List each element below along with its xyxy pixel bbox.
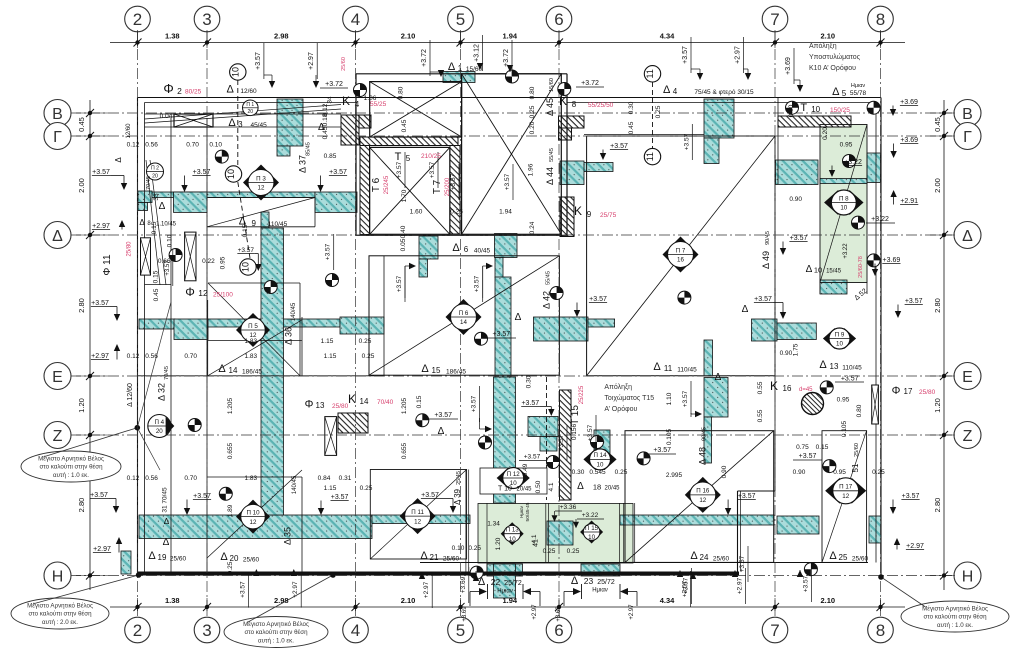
svg-text:T 10: T 10	[498, 486, 512, 493]
svg-text:25/100: 25/100	[213, 292, 233, 299]
svg-text:0.45: 0.45	[628, 121, 635, 134]
svg-text:12: 12	[842, 493, 849, 500]
svg-text:31 70/45: 31 70/45	[161, 487, 168, 513]
svg-text:Δ: Δ	[742, 304, 749, 315]
svg-text:Δ 12/60: Δ 12/60	[127, 383, 134, 407]
svg-text:3: 3	[202, 621, 211, 640]
grid line Gamma horizontal	[70, 135, 952, 137]
svg-text:+3.57: +3.57	[905, 298, 923, 305]
crossed lintel box	[174, 114, 213, 127]
svg-text:0.10: 0.10	[167, 234, 174, 247]
svg-text:1.38: 1.38	[165, 32, 180, 41]
svg-text:34: 34	[327, 96, 334, 104]
svg-text:10: 10	[811, 105, 820, 114]
svg-text:+2.97: +2.97	[308, 52, 315, 70]
svg-text:+3.57: +3.57	[841, 375, 859, 382]
svg-text:85/45: 85/45	[306, 142, 312, 156]
svg-text:Δ 35: Δ 35	[282, 527, 292, 545]
grid circle Ζ left	[44, 422, 71, 449]
benchmark at 332,280	[326, 274, 339, 287]
svg-text:+2.97: +2.97	[737, 577, 744, 594]
grid circle Η left	[44, 562, 71, 589]
svg-text:3: 3	[238, 120, 243, 129]
svg-text:Δ: Δ	[421, 363, 429, 375]
strip vertical x494 bottom stub	[494, 564, 516, 598]
grid line Delta horizontal	[70, 234, 952, 236]
svg-text:+3.69: +3.69	[785, 57, 792, 75]
svg-text:στο καλούπι στην θέση: στο καλούπι στην θέση	[923, 614, 987, 621]
shaft П8 outline + diagonal	[820, 125, 867, 283]
svg-text:0.40: 0.40	[400, 225, 407, 238]
svg-text:12: 12	[198, 288, 208, 298]
beam Δ1 top	[443, 72, 475, 83]
beam piece right x869	[869, 516, 881, 543]
svg-text:Μέγιστο Αρνητικό Βέλος: Μέγιστο Αρνητικό Βέλος	[38, 455, 104, 462]
svg-text:+2.97: +2.97	[629, 604, 635, 620]
svg-text:Δ: Δ	[139, 218, 145, 227]
svg-text:+3.57: +3.57	[504, 173, 511, 190]
svg-text:1.06: 1.06	[364, 95, 377, 102]
benchmark at 829.4,466.1	[823, 460, 836, 473]
svg-text:+3.57: +3.57	[492, 331, 510, 338]
svg-text:Δ: Δ	[962, 228, 973, 245]
beam deep y516 x777	[777, 516, 819, 534]
room П17 outline	[822, 431, 867, 563]
svg-text:Δ: Δ	[832, 86, 840, 98]
svg-text:0.545: 0.545	[589, 469, 606, 476]
svg-text:Ημιαν: Ημιαν	[851, 83, 866, 89]
svg-text:Π 16: Π 16	[696, 488, 710, 495]
post Φ11 left X-box	[141, 238, 151, 275]
svg-text:2.00: 2.00	[77, 178, 86, 193]
svg-text:T: T	[395, 151, 402, 163]
room П10 walls	[207, 476, 302, 478]
svg-text:23: 23	[584, 576, 594, 586]
green zone shaft K10/П8	[820, 125, 867, 283]
svg-text:1.70: 1.70	[401, 189, 408, 202]
svg-text:+2.97: +2.97	[92, 223, 110, 230]
svg-text:Δ: Δ	[663, 84, 671, 96]
svg-text:+3.69: +3.69	[460, 576, 467, 593]
svg-text:0.90: 0.90	[789, 196, 802, 203]
wall strip x261 thin top	[261, 212, 269, 228]
svg-text:0.90: 0.90	[721, 465, 728, 478]
svg-text:Δ 42: Δ 42	[542, 291, 552, 309]
benchmark at 643.6,458.4	[637, 452, 650, 465]
svg-text:25/72: 25/72	[597, 579, 615, 586]
svg-text:Δ: Δ	[690, 550, 698, 562]
svg-text:Δ: Δ	[438, 426, 445, 437]
svg-text:13: 13	[830, 362, 839, 371]
rooms mid-left verticals	[301, 317, 303, 376]
svg-text:+3.57: +3.57	[653, 447, 671, 454]
svg-text:51: 51	[851, 463, 860, 472]
grid line 2 vertical	[137, 30, 139, 618]
svg-text:0.95: 0.95	[837, 397, 850, 404]
svg-text:4: 4	[351, 10, 360, 29]
room Δ14 top edge	[207, 300, 209, 376]
panel symbol П4	[148, 415, 171, 438]
strip vertical x704 top thin	[704, 138, 719, 164]
svg-text:10: 10	[241, 262, 251, 272]
beam Δ44 arm	[560, 163, 613, 172]
svg-text:Δ 45: Δ 45	[545, 98, 555, 116]
svg-text:12: 12	[258, 185, 265, 192]
svg-text:0.12: 0.12	[127, 142, 140, 149]
svg-text:19: 19	[158, 553, 167, 562]
left dimension chain	[89, 100, 91, 590]
svg-text:Δ: Δ	[715, 372, 722, 383]
svg-text:4.1: 4.1	[531, 534, 538, 543]
svg-text:Δ 37: Δ 37	[298, 155, 308, 173]
svg-text:+3.57: +3.57	[589, 296, 607, 303]
svg-text:14: 14	[229, 366, 238, 375]
svg-text:1.34: 1.34	[487, 521, 500, 528]
svg-text:2.10: 2.10	[401, 32, 416, 41]
svg-text:Ημιαν: Ημιαν	[497, 589, 513, 595]
svg-text:+2.97: +2.97	[734, 46, 741, 64]
svg-text:0.25: 0.25	[359, 338, 372, 345]
svg-text:Β: Β	[52, 106, 63, 123]
svg-text:0.04: 0.04	[160, 113, 173, 120]
svg-text:12: 12	[699, 497, 706, 504]
beam small below green shaft	[820, 280, 847, 294]
svg-text:Δ: Δ	[114, 157, 123, 163]
svg-text:Δ: Δ	[478, 576, 486, 588]
Ημιαν arrow pair Δ22	[479, 588, 487, 595]
svg-text:Π 3: Π 3	[256, 175, 266, 182]
beam thin y515 x372-470	[372, 515, 470, 524]
svg-text:140/45: 140/45	[292, 475, 298, 494]
grid E room bottoms	[138, 375, 385, 377]
beam horizontal y192 thin grid2-4	[139, 192, 315, 198]
benchmark at 810.9,569.2	[804, 563, 817, 576]
svg-text:Π 2: Π 2	[151, 166, 159, 172]
svg-text:+3.57: +3.57	[558, 434, 565, 451]
benchmark at 221.8,156.6	[215, 150, 228, 163]
svg-text:0.25: 0.25	[468, 545, 481, 552]
sliver line П2	[150, 160, 166, 285]
section circle 11 top	[644, 66, 660, 82]
section dashed line near T15	[546, 377, 548, 500]
svg-text:4: 4	[673, 87, 678, 96]
svg-text:50/45-45: 50/45-45	[525, 502, 531, 521]
svg-text:Π 1: Π 1	[246, 102, 254, 108]
svg-text:+2.91: +2.91	[900, 198, 918, 205]
svg-text:0.25: 0.25	[227, 561, 234, 574]
grid circle Γ left	[44, 123, 71, 150]
grid circle 7 top	[762, 6, 788, 32]
svg-text:0.30: 0.30	[572, 469, 585, 476]
svg-text:18: 18	[593, 483, 601, 492]
svg-text:0.15: 0.15	[153, 270, 160, 283]
benchmark at 481,338.7	[475, 332, 488, 345]
room П16 diagonal	[625, 431, 774, 563]
svg-text:25/80: 25/80	[919, 389, 936, 396]
svg-text:Δ: Δ	[148, 550, 156, 562]
grid circle 3 bottom	[194, 617, 220, 643]
svg-text:13: 13	[316, 401, 325, 410]
panel symbol П2	[147, 163, 164, 180]
svg-text:Δ 39: Δ 39	[453, 488, 462, 505]
svg-text:0.45: 0.45	[401, 119, 408, 132]
white box room П12	[480, 468, 547, 494]
svg-text:25/45: 25/45	[456, 471, 462, 485]
svg-text:11: 11	[645, 69, 655, 78]
svg-text:Κ10 Α’ Ορόφου: Κ10 Α’ Ορόφου	[809, 64, 856, 72]
wall strip vertical x261 long	[261, 228, 284, 515]
svg-text:+3.57: +3.57	[429, 161, 436, 178]
svg-text:110/45: 110/45	[842, 365, 862, 372]
svg-text:+2.97: +2.97	[91, 353, 109, 360]
svg-text:14: 14	[360, 397, 369, 406]
svg-text:16: 16	[783, 384, 792, 393]
svg-text:T 7: T 7	[432, 179, 443, 194]
svg-text:20/45: 20/45	[516, 487, 532, 493]
benchmark at 422.3,420.3	[416, 414, 429, 427]
bottom dimension chain	[110, 606, 905, 608]
svg-text:0.25: 0.25	[655, 105, 662, 118]
teal piece left of T15 lower	[540, 437, 557, 452]
svg-text:K: K	[574, 204, 582, 218]
svg-text:Δ: Δ	[164, 517, 170, 526]
leader sliver through П4	[137, 302, 171, 428]
strip vertical x704 wide	[704, 378, 728, 418]
room Φ12 block	[208, 282, 300, 284]
beam right of grid7 y160	[776, 160, 819, 185]
svg-text:1: 1	[458, 64, 463, 73]
beam y319 arm to x614	[588, 319, 615, 327]
svg-text:4.1: 4.1	[548, 482, 555, 491]
green bottom outline	[478, 504, 633, 564]
svg-text:Υποστυλώματος: Υποστυλώματος	[809, 53, 861, 61]
column K4 step	[359, 115, 371, 128]
svg-text:Β: Β	[962, 106, 973, 123]
svg-text:+3.57: +3.57	[396, 161, 403, 178]
Ημιαν arrow pair Δ23	[573, 588, 581, 595]
beam y319 deep	[174, 319, 208, 340]
svg-text:+3.57: +3.57	[524, 454, 541, 461]
svg-text:+3.57: +3.57	[255, 52, 262, 70]
stair X-box big right	[462, 74, 562, 235]
svg-text:10: 10	[836, 341, 843, 348]
svg-text:0.25: 0.25	[615, 469, 628, 476]
svg-text:0.15: 0.15	[816, 444, 829, 451]
svg-text:0.105: 0.105	[841, 420, 848, 437]
svg-text:0.80: 0.80	[529, 86, 536, 99]
panel symbol П15	[580, 521, 603, 544]
svg-text:25/245: 25/245	[384, 175, 390, 194]
benchmark at 792,107.7	[786, 101, 799, 114]
svg-text:στο καλούπι στην θέση: στο καλούπι στην θέση	[39, 464, 103, 471]
svg-text:1.10/45: 1.10/45	[156, 222, 177, 228]
beam junction left wall lower	[138, 203, 148, 211]
svg-text:15: 15	[432, 366, 441, 375]
svg-text:0.15: 0.15	[416, 395, 423, 408]
svg-text:+3.57: +3.57	[790, 235, 808, 242]
svg-text:90/45: 90/45	[765, 231, 771, 245]
strip vertical x419 thin	[419, 259, 428, 277]
callout ellipse 1 (1.0 εκ) left	[21, 451, 121, 482]
svg-text:2: 2	[133, 621, 142, 640]
svg-text:T 15: T 15	[570, 405, 581, 425]
svg-text:αυτή : 1.0 εκ.: αυτή : 1.0 εκ.	[53, 472, 89, 479]
svg-text:Γ: Γ	[53, 129, 62, 146]
svg-text:+3.57: +3.57	[434, 412, 452, 419]
svg-text:0.90: 0.90	[793, 469, 806, 476]
svg-text:Φ: Φ	[163, 81, 173, 96]
beam y323 right of grid7	[777, 323, 816, 340]
svg-text:Απόληξη: Απόληξη	[604, 383, 632, 391]
grid circle Δ left	[44, 222, 71, 249]
top dimension chain	[110, 42, 905, 44]
column K8 step	[559, 128, 572, 140]
svg-text:8: 8	[572, 100, 577, 109]
benchmark at 873.6,107.7	[867, 101, 880, 114]
svg-text:+3.57: +3.57	[682, 46, 689, 64]
panel symbol П1	[243, 100, 259, 116]
grid circle 2 bottom	[125, 617, 151, 643]
svg-text:25/80: 25/80	[332, 403, 349, 410]
grid line 4 vertical	[355, 30, 357, 618]
svg-text:15/60: 15/60	[549, 78, 555, 92]
svg-text:0.56: 0.56	[145, 142, 158, 149]
svg-text:+3.57: +3.57	[610, 143, 628, 150]
svg-text:20: 20	[156, 428, 163, 435]
K16 zone lines	[774, 376, 776, 491]
svg-text:1.83: 1.83	[244, 338, 257, 345]
grid circle 2 top	[125, 6, 151, 32]
svg-text:70/45: 70/45	[164, 366, 170, 380]
svg-text:+3.57: +3.57	[902, 493, 920, 500]
svg-text:5: 5	[842, 89, 847, 98]
svg-text:33: 33	[153, 193, 160, 201]
wall strip vertical x277 top	[277, 99, 303, 146]
svg-text:0.20: 0.20	[529, 121, 536, 134]
svg-text:Π 17: Π 17	[839, 484, 853, 491]
svg-text:25/75: 25/75	[600, 212, 617, 219]
benchmark at 360,90	[354, 84, 367, 97]
svg-text:+3.57: +3.57	[738, 493, 756, 500]
svg-text:10: 10	[597, 462, 604, 469]
svg-text:Δ: Δ	[227, 84, 235, 96]
grid circle 6 top	[546, 6, 572, 32]
svg-text:T: T	[800, 102, 807, 114]
svg-text:8: 8	[876, 621, 885, 640]
svg-text:110/45: 110/45	[268, 221, 288, 228]
svg-text:4: 4	[355, 100, 360, 109]
svg-text:0.10: 0.10	[209, 142, 222, 149]
perimeter wall left double	[137, 98, 139, 576]
svg-text:0.22: 0.22	[202, 258, 215, 265]
svg-text:+3.57: +3.57	[91, 300, 109, 307]
svg-text:0.31: 0.31	[339, 475, 352, 482]
svg-text:0.55: 0.55	[757, 409, 764, 422]
svg-text:6: 6	[554, 621, 563, 640]
svg-text:1.20: 1.20	[933, 398, 942, 413]
svg-text:0.84: 0.84	[318, 475, 331, 482]
section circle 11 low	[644, 148, 660, 164]
svg-text:0.25: 0.25	[450, 209, 463, 216]
svg-text:K: K	[348, 392, 356, 406]
svg-text:10: 10	[840, 205, 847, 212]
svg-text:6: 6	[464, 245, 469, 254]
strip vertical x704 mid thin	[704, 340, 713, 376]
grid line Z horizontal	[70, 434, 952, 436]
svg-text:+3.57: +3.57	[421, 492, 439, 499]
beam y515 П16 room bottom	[620, 515, 774, 525]
svg-text:Ημιαν: Ημιαν	[519, 505, 524, 517]
svg-text:1.205: 1.205	[401, 397, 408, 414]
svg-text:16: 16	[677, 257, 684, 264]
svg-text:40/45: 40/45	[474, 248, 491, 255]
svg-text:+3.22: +3.22	[843, 243, 849, 259]
svg-text:0.30: 0.30	[628, 101, 635, 114]
svg-text:20/45: 20/45	[604, 486, 620, 492]
svg-text:2.995: 2.995	[666, 472, 683, 479]
grid line 8 vertical	[880, 30, 882, 618]
section circle 10 mid	[225, 166, 241, 182]
svg-text:Μέγιστο Αρνητικό Βέλος: Μέγιστο Αρνητικό Βέλος	[243, 621, 309, 628]
svg-text:αυτή : 2.0 εκ.: αυτή : 2.0 εκ.	[42, 619, 78, 626]
svg-text:Δ: Δ	[163, 537, 170, 548]
benchmark at 476.7,572.6	[470, 566, 483, 579]
svg-text:+3.57: +3.57	[90, 492, 108, 499]
svg-text:+3.57: +3.57	[325, 243, 332, 260]
grid circle 4 bottom	[343, 617, 369, 643]
grid circle 7 bottom	[762, 617, 788, 643]
svg-text:Π 11: Π 11	[411, 509, 424, 516]
room П11 diagonal	[370, 470, 466, 560]
svg-text:2.10: 2.10	[401, 596, 416, 605]
grid circle 4 top	[343, 6, 369, 32]
svg-text:1.20: 1.20	[77, 398, 86, 413]
svg-text:70/45: 70/45	[146, 176, 152, 190]
svg-text:+3.57: +3.57	[799, 453, 817, 460]
svg-text:0.56: 0.56	[145, 475, 158, 482]
svg-text:0.50: 0.50	[535, 480, 542, 493]
svg-text:45/45: 45/45	[250, 122, 267, 129]
grid circle 8 bottom	[868, 617, 894, 643]
svg-text:1.75: 1.75	[792, 343, 799, 356]
beam junction left wall	[138, 191, 152, 203]
panel symbol П10	[236, 500, 270, 534]
svg-text:17: 17	[904, 387, 913, 396]
svg-text:10: 10	[509, 536, 516, 543]
svg-text:2.10: 2.10	[820, 596, 835, 605]
svg-text:+3.22: +3.22	[871, 216, 889, 223]
svg-text:+3.57: +3.57	[193, 169, 211, 176]
svg-text:0.30: 0.30	[525, 375, 532, 388]
beam y319 thin mid	[208, 319, 340, 327]
beam y319 deep left of grid7	[752, 319, 778, 341]
svg-text:Δ 48: Δ 48	[698, 447, 708, 465]
svg-text:Φ 11: Φ 11	[102, 254, 113, 276]
room П6 outline	[369, 256, 559, 375]
stair shaft outline	[356, 73, 567, 75]
svg-text:20: 20	[230, 554, 239, 563]
svg-text:0.105: 0.105	[666, 428, 673, 445]
svg-text:αυτή : 1.0 εκ.: αυτή : 1.0 εκ.	[258, 638, 294, 645]
svg-text:4.34: 4.34	[660, 32, 675, 41]
svg-text:+3.57: +3.57	[474, 275, 481, 292]
strip vertical x494 lower	[494, 377, 516, 503]
svg-text:Π 14: Π 14	[593, 452, 607, 459]
svg-text:0.12: 0.12	[127, 475, 140, 482]
svg-text:5: 5	[456, 621, 465, 640]
svg-text:+3.57: +3.57	[396, 275, 403, 292]
panel symbol П12	[497, 468, 509, 489]
